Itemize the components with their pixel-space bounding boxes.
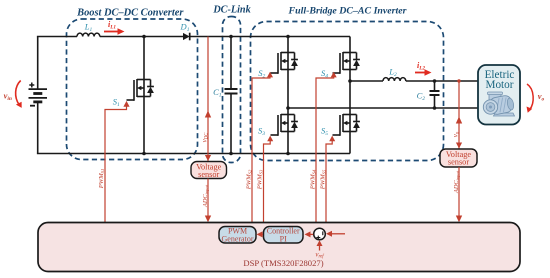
node vo sense tap (457, 79, 460, 82)
PWM Generator block (219, 227, 256, 244)
junction right leg mid output (348, 79, 352, 83)
vin curved arrow (16, 81, 21, 105)
wire: S2 drain up (287, 37, 289, 53)
wire: S5 source down (349, 132, 351, 154)
svg-text:sensor: sensor (198, 170, 219, 179)
arrow feedback into summing (331, 233, 346, 235)
capacitor C1 (230, 37, 232, 90)
battery plus terminal label (29, 83, 34, 88)
junction left leg mid output (286, 106, 290, 110)
bottom rail wire (37, 153, 350, 155)
wire: battery top to top rail (37, 37, 39, 90)
junction S1 drain on top rail (142, 35, 146, 39)
wire: output bottom left-leg to motor (288, 107, 478, 109)
wire: output top L2 to motor (406, 80, 478, 82)
full-bridge inverter dashed boundary box (251, 22, 444, 161)
svg-text:Full-Bridge DC–AC Inverter: Full-Bridge DC–AC Inverter (288, 6, 407, 17)
wire: battery bottom to bottom rail (37, 102, 39, 154)
current arrow iL1 (104, 31, 120, 33)
wire: top rail diode to bridge right leg (190, 36, 350, 38)
voltage sensor 1 (191, 162, 227, 179)
transistor S3 (271, 114, 298, 136)
wire PWM S1 (105, 106, 127, 223)
vDC measurement arrowhead (205, 111, 211, 118)
transistor S2 (271, 52, 298, 74)
junction S1 source on bottom rail (142, 152, 146, 156)
svg-text:DC-Link: DC-Link (212, 5, 251, 16)
wire ADC input 1 (207, 179, 209, 219)
wire: S1 drain up (143, 37, 145, 80)
wire: right leg mid S4 to S5 (349, 70, 351, 115)
battery minus terminal label (30, 105, 35, 107)
wire: output top right-leg to L2 (350, 80, 383, 82)
DSP block (38, 223, 520, 272)
inductor L2 (383, 78, 406, 81)
wire ADC input 2 (458, 167, 460, 218)
svg-text:Motor: Motor (486, 79, 514, 91)
voltage sensor 2 (440, 149, 477, 167)
junction C2 top (433, 79, 437, 83)
junction left leg bottom (286, 152, 290, 156)
transistor S5 (333, 114, 360, 136)
junction C1 bottom (229, 152, 233, 156)
svg-text:PI: PI (280, 235, 287, 244)
wire PWM S4 (316, 77, 334, 223)
capacitor C2 (434, 81, 436, 91)
wire: left leg mid S2 to S3 (287, 70, 289, 115)
diode D1 (183, 33, 190, 40)
wire: S4 drain up (349, 37, 351, 53)
arrow summing to controller (309, 233, 313, 235)
current arrow iL2 (415, 72, 427, 74)
vo measurement arrowhead (456, 117, 462, 124)
wire: top rail battery to L1 (37, 36, 77, 38)
junction C1 top (229, 35, 233, 39)
arrow vref into summing (319, 245, 321, 251)
wire PWM S2 (252, 77, 270, 223)
wire: S1 source down (143, 97, 145, 154)
motor icon (483, 92, 514, 116)
svg-text:DSP (TMS320F28027): DSP (TMS320F28027) (243, 258, 323, 268)
vo curved arrow (527, 84, 533, 110)
battery Vin (29, 89, 48, 102)
junction C2 bottom (433, 106, 437, 110)
junction left leg top (286, 35, 290, 39)
wire PWM S3 (264, 141, 271, 223)
boost converter dashed boundary box (67, 19, 198, 160)
transistor S1 (127, 79, 154, 101)
arrowhead into voltage sensor 2 (456, 143, 462, 149)
summing junction (314, 228, 326, 240)
wire PWM S5 (326, 141, 332, 223)
transistor S4 (333, 52, 360, 74)
wire: top rail L1 to diode (100, 36, 183, 38)
DC-link dashed boundary box (223, 17, 241, 163)
wire: S3 source down (287, 132, 289, 154)
arrowhead into voltage sensor 1 (205, 155, 211, 161)
electric motor block (478, 65, 520, 125)
svg-text:Boost DC–DC Converter: Boost DC–DC Converter (76, 8, 184, 19)
svg-text:sensor: sensor (448, 158, 469, 167)
arrow controller to PWM generator (261, 233, 263, 235)
node vDC sense tap (207, 37, 209, 162)
Controller PI block (264, 227, 304, 244)
svg-text:Generator: Generator (222, 235, 254, 244)
inductor L1 (77, 33, 100, 36)
